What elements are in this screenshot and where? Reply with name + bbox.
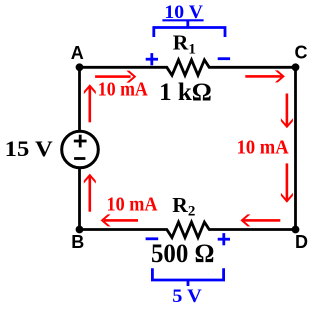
R1 plus polarity [146,53,158,65]
wire top (A to C) with resistor R1 body [80,60,296,75]
svg-text:5 V: 5 V [172,286,202,307]
node D dot [292,226,300,234]
current arrow bottom-left (left) [101,214,138,226]
wire bottom (D to B) with resistor R2 body [80,222,296,237]
R2 plus polarity [218,233,230,245]
R2 minus polarity [146,237,159,240]
svg-text:10 mA: 10 mA [107,195,158,216]
svg-text:10 mA: 10 mA [98,80,148,101]
svg-text:10 V: 10 V [164,3,203,23]
wire left lower (source bottom to B) [78,167,81,230]
R1 minus polarity [218,57,230,60]
svg-text:R2: R2 [172,193,195,220]
svg-text:500 Ω: 500 Ω [151,239,215,268]
current arrow left-top (up) [84,84,96,122]
node C dot [292,63,300,71]
node B dot [76,226,84,234]
svg-text:A: A [71,43,84,63]
current arrow left-bottom (up) [84,174,96,212]
current arrow bottom-right (left) [240,214,280,226]
svg-text:D: D [295,232,308,252]
svg-text:R1: R1 [173,31,196,58]
voltage source minus sign [74,157,85,160]
voltage bracket 10 V (top) [154,20,225,37]
wire right (C to D) [294,67,297,229]
node A dot [76,63,84,71]
svg-text:15 V: 15 V [5,136,53,161]
svg-text:C: C [295,43,308,63]
svg-text:B: B [71,232,84,252]
svg-text:1 kΩ: 1 kΩ [159,79,212,106]
current arrow top-right (right) [245,70,285,82]
voltage source plus sign [74,135,87,148]
svg-text:10 mA: 10 mA [237,138,289,159]
current arrow right-upper (down) [281,94,293,129]
voltage source V1 circle [62,131,99,168]
voltage bracket 5 V (bottom) [152,268,223,286]
current arrow top-left (right) [95,71,136,83]
current arrow right-lower (down) [281,163,293,202]
wire left upper (A to source top) [78,67,81,132]
